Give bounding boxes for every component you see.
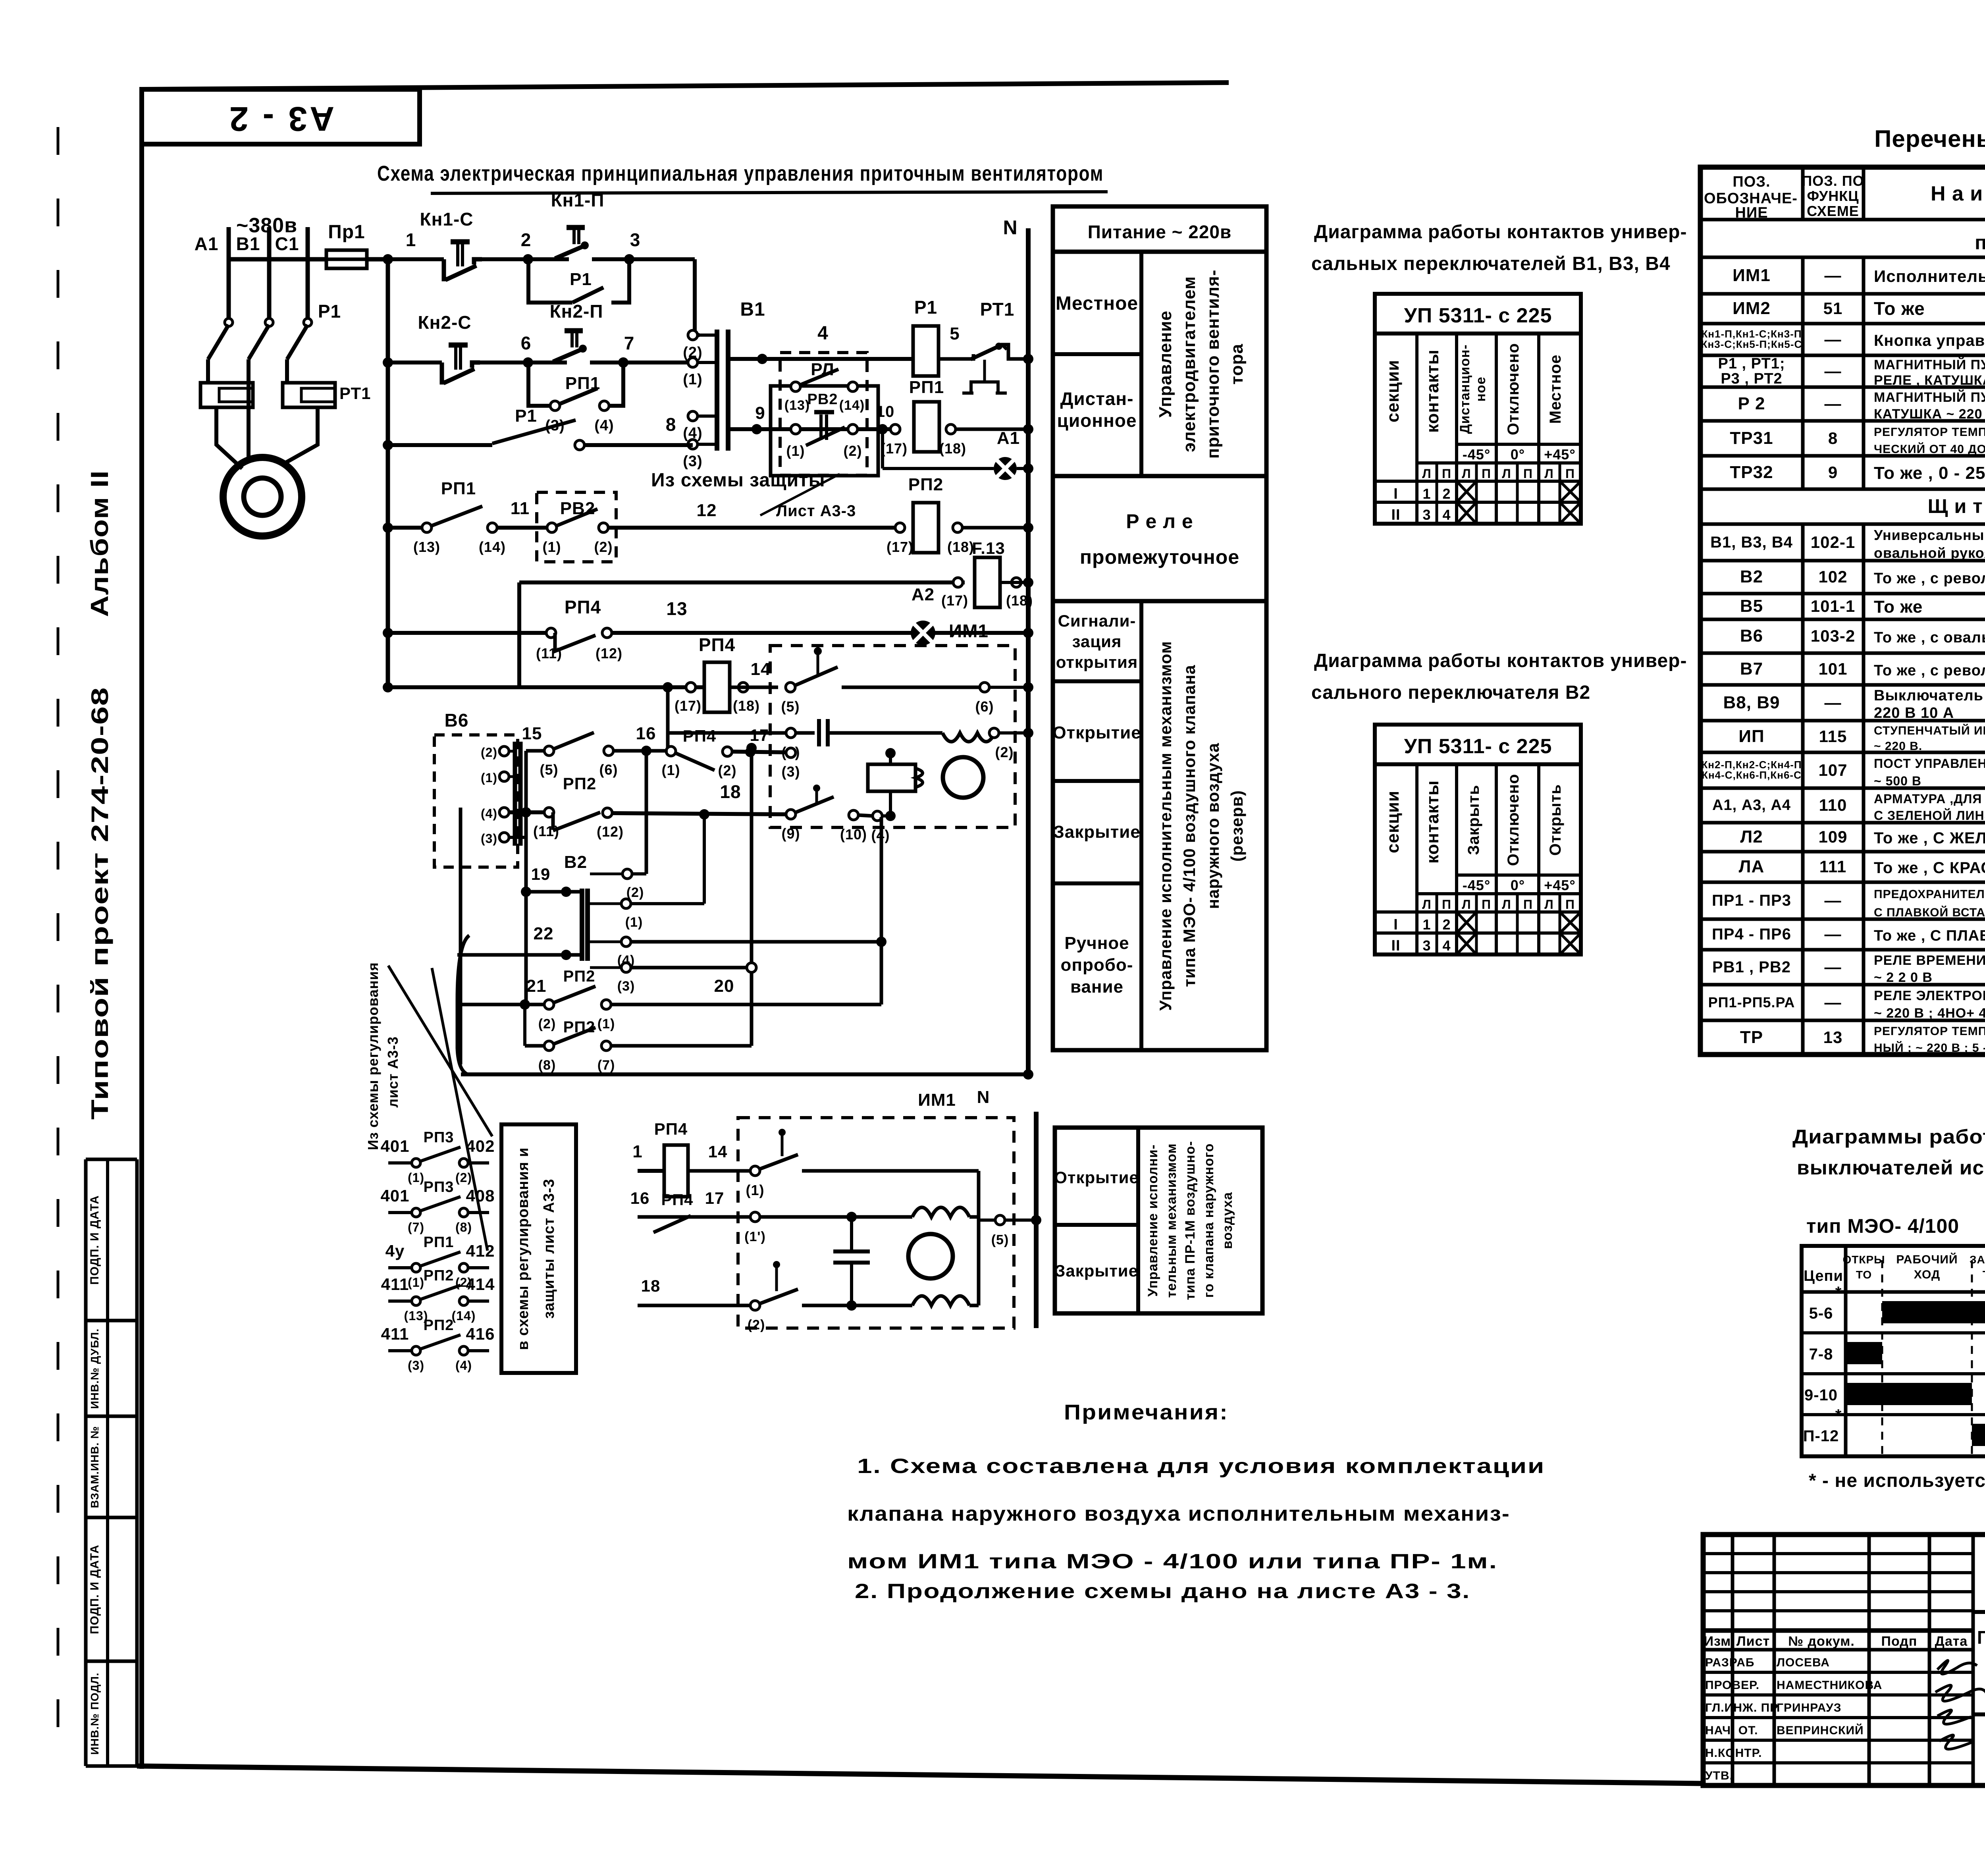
svg-text:13: 13 [1823,1028,1843,1047]
svg-text:мом ИМ1 типа МЭО - 4/100: мом ИМ1 типа МЭО - 4/100 или типа ПР- 1м… [847,1550,1498,1573]
svg-text:Р1: Р1 [318,301,341,322]
svg-text:РАЗРАБ: РАЗРАБ [1705,1656,1754,1669]
node 16 [641,746,651,756]
УП table body [1375,764,1581,954]
svg-text:То же: То же [1874,597,1923,617]
dashed box РВ2 [537,492,616,562]
svg-text:ПРОВЕР.: ПРОВЕР. [1705,1679,1760,1692]
svg-text:зация: зация [1072,632,1122,651]
box в схемы регулирования и защиты лист А3-3 [501,1124,576,1373]
svg-text:ФУНКЦ: ФУНКЦ [1807,188,1859,204]
svg-text:В2: В2 [564,852,587,872]
svg-text:(7): (7) [408,1220,424,1234]
svg-text:ПОСТ УПРАВЛЕНИЯ КНОПОЧНЫЙ ,: ПОСТ УПРАВЛЕНИЯ КНОПОЧНЫЙ , [1874,756,1985,771]
svg-text:2. Продолжение схемы дано: 2. Продолжение схемы дано на листе А3 - … [855,1580,1470,1603]
svg-text:Кн2-П: Кн2-П [550,301,603,322]
svg-text:8: 8 [666,414,676,435]
УП row II [1375,501,1581,504]
svg-text:МАГНИТНЫЙ ПУСКАТЕЛЬ ,: МАГНИТНЫЙ ПУСКАТЕЛЬ , [1874,389,1985,405]
svg-text:402: 402 [466,1137,495,1155]
svg-text:РЕГУЛЯТОР ТЕМПЕРАТУРЫ ТРЕХПОЗИ: РЕГУЛЯТОР ТЕМПЕРАТУРЫ ТРЕХПОЗИЦИОН- [1874,1025,1985,1038]
svg-text:контакты: контакты [1423,780,1442,864]
wire lower rail 3 (18) [638,1304,750,1307]
svg-text:17: 17 [705,1189,725,1207]
svg-text:(5): (5) [991,1232,1009,1247]
svg-text:Н.КОНТР.: Н.КОНТР. [1705,1747,1762,1760]
wire РП2 coil to N [962,526,1028,530]
limit diagram dashed dividers [1881,1260,1883,1456]
svg-text:109: 109 [1818,827,1847,846]
svg-text:(1): (1) [543,539,561,555]
limit diagram table frame [1802,1246,1985,1456]
wire lower rail 2 (16-17) [638,1215,750,1219]
svg-text:Кн2-С: Кн2-С [418,312,472,333]
stamp left grid rows (upper blank) [1703,1552,1973,1555]
svg-text:(6): (6) [599,762,618,778]
svg-text:-45°: -45° [1463,877,1490,893]
wire fuse to bus [367,257,388,262]
wires solenoid-motor [889,753,892,764]
svg-text:*: * [1835,1284,1842,1301]
svg-text:8: 8 [1828,429,1838,447]
svg-text:6: 6 [521,333,532,353]
svg-text:в схемы регулирования и: в схемы регулирования и [515,1147,532,1350]
wire row 15 elbow from В6 [526,749,545,753]
svg-text:ное: ное [1473,376,1488,401]
svg-text:(5): (5) [781,698,800,715]
contact РП1 (bypass) [528,362,550,406]
svg-text:ЛОСЕВА: ЛОСЕВА [1777,1656,1830,1669]
svg-text:~ 500 В: ~ 500 В [1874,774,1921,788]
svg-text:тип МЭО- 4/100: тип МЭО- 4/100 [1806,1215,1959,1237]
contact РП4 arm (lower) [653,1216,691,1232]
svg-text:2: 2 [1442,486,1451,502]
svg-text:51: 51 [1823,299,1843,318]
svg-text:Л: Л [1502,467,1511,481]
svg-text:Р е л е: Р е л е [1126,510,1193,532]
svg-text:ИП: ИП [1738,727,1764,746]
svg-text:РТ1: РТ1 [980,299,1015,320]
svg-text:(2): (2) [538,1016,556,1032]
svg-text:РВ1 , РВ2: РВ1 , РВ2 [1712,958,1791,976]
svg-text:В2: В2 [1740,567,1763,586]
svg-text:(12): (12) [597,823,624,840]
node 10 [877,424,888,434]
svg-text:102-1: 102-1 [1811,533,1855,551]
svg-text:ИНВ.№ ДУБЛ.: ИНВ.№ ДУБЛ. [89,1328,101,1409]
svg-text:(7): (7) [597,1058,615,1073]
coil РП4 (lower) [664,1145,688,1197]
svg-text:(10): (10) [840,826,867,843]
svg-text:Кнопка управления двухштифтова: Кнопка управления двухштифтовая [1874,332,1985,349]
svg-text:-45°: -45° [1463,446,1490,463]
svg-text:ПРЕДОХРАНИТЕЛЬ ТРУБЧАТЫЙ; ~250: ПРЕДОХРАНИТЕЛЬ ТРУБЧАТЫЙ; ~250В, 10 А [1874,887,1985,901]
svg-text:~ 220 В.: ~ 220 В. [1874,740,1922,753]
svg-text:401: 401 [380,1137,409,1155]
svg-text:Л: Л [1502,897,1511,912]
svg-text:клапана наружного воздуха и: клапана наружного воздуха исполнительным… [847,1502,1510,1525]
svg-text:16: 16 [630,1189,650,1207]
wire F13 coil to N [1000,581,1028,584]
wire В2 (1) row stub [631,902,704,905]
svg-text:+45°: +45° [1544,446,1575,463]
wire rail 3 (line 8) [388,443,492,447]
svg-text:102: 102 [1818,567,1847,586]
svg-text:УТВ.: УТВ. [1705,1769,1733,1782]
svg-text:(3): (3) [683,453,702,470]
svg-text:А1, А3, А4: А1, А3, А4 [1712,797,1791,814]
svg-text:контакты: контакты [1423,349,1442,433]
svg-text:ИМ1: ИМ1 [918,1090,956,1110]
limit switch (9)-(10) inside ИМ1 [786,810,796,819]
svg-text:ИНВ.№ ПОДЛ.: ИНВ.№ ПОДЛ. [89,1672,101,1755]
sheet outer dashed trim line (left) [57,127,60,1771]
svg-text:3: 3 [1422,937,1431,954]
svg-text:В6: В6 [445,710,469,731]
svg-text:НАЧ. ОТ.: НАЧ. ОТ. [1705,1724,1758,1737]
svg-text:В8, В9: В8, В9 [1723,693,1780,712]
svg-text:ИМ1: ИМ1 [1733,266,1771,285]
svg-text:Управление исполнительным меха: Управление исполнительным механизмом [1156,641,1175,1011]
wire rail 9 (РП1 coil row) [730,427,901,431]
svg-text:Диаграмма работы контактов уни: Диаграмма работы контактов универ- [1314,650,1687,671]
svg-text:2: 2 [521,229,532,250]
svg-text:(4): (4) [594,417,614,434]
wire rail 10 (line 18) [509,810,552,814]
svg-text:1: 1 [406,229,416,250]
limit diagram row line [1802,1372,1985,1375]
svg-text:—: — [1825,330,1842,349]
stamp title Приточные системы [1973,1712,1985,1716]
svg-text:5-6: 5-6 [1809,1305,1833,1322]
svg-text:ТР32: ТР32 [1730,463,1773,482]
svg-text:7: 7 [624,333,635,353]
svg-text:(8): (8) [538,1058,556,1073]
УП table header band [1375,294,1581,334]
vertical feeder x=1682 [666,687,670,751]
svg-text:Управление исполни-: Управление исполни- [1145,1144,1160,1297]
wire rail 8 (capacitor row) inside ИМ1 [666,689,670,733]
vertical from ИМ1 (10)/(4) down [880,817,883,1005]
svg-text:Кн1-П: Кн1-П [551,190,605,210]
УП row II [1375,931,1581,935]
svg-text:(1): (1) [746,1182,765,1198]
svg-text:Диаграммы работы контактов ко: Диаграммы работы контактов конечных [1792,1126,1985,1148]
wire РП2 vertical x=1160 down [459,808,463,1064]
svg-text:416: 416 [466,1325,495,1343]
dashed box ИМ1 (МЭО-4/100 actuator) [770,646,1015,827]
wire heaters to motor [216,407,242,469]
svg-text:Открытие: Открытие [1054,1168,1139,1187]
svg-text:18: 18 [720,781,741,802]
svg-text:П-12: П-12 [1803,1427,1839,1445]
svg-text:Типовой проект 274-20-68: Типовой проект 274-20-68 [87,687,113,1120]
svg-text:ХОД: ХОД [1914,1268,1941,1281]
limit diagram bar П-12 [1972,1424,1985,1446]
coil РП2 [895,523,905,532]
svg-text:Универсальный переключатель: Универсальный переключатель с [1874,527,1985,543]
svg-text:220 В 10 А: 220 В 10 А [1874,705,1954,721]
svg-text:Л: Л [1544,467,1553,481]
svg-text:Приточные системы П-1, П-2.: Приточные системы П-1, П-2. [1977,1627,1985,1648]
svg-text:РП4: РП4 [661,1191,694,1209]
svg-text:НИЕ: НИЕ [1735,204,1768,221]
svg-text:(1'): (1') [744,1229,766,1244]
svg-text:2: 2 [1442,916,1451,933]
svg-text:13: 13 [666,598,687,619]
svg-text:(2): (2) [748,1317,765,1332]
wire phase top rail [229,257,326,262]
contact РВ2 inside РЛ [791,382,800,391]
svg-text:5: 5 [950,324,960,343]
svg-text:секции: секции [1383,791,1403,853]
svg-text:(14): (14) [452,1309,476,1323]
contact РП2 (8)-(7) [544,1041,554,1051]
svg-text:Р3 , РТ2: Р3 , РТ2 [1721,370,1782,387]
svg-text:защиты лист А3-3: защиты лист А3-3 [541,1179,557,1319]
svg-text:ПОЗ.: ПОЗ. [1733,174,1770,190]
svg-text:ПОЗ. ПО: ПОЗ. ПО [1802,173,1864,189]
svg-text:РП3: РП3 [424,1129,454,1146]
svg-text:Щ и т а в т о м а т и з а ц: Щ и т а в т о м а т и з а ц и и [1928,495,1985,517]
svg-text:В5: В5 [1740,596,1763,616]
leader line from защиты label to РЛ box [760,474,840,515]
svg-text:Отключено: Отключено [1505,774,1522,866]
svg-text:20: 20 [714,976,734,996]
svg-text:наружного воздуха: наружного воздуха [1204,743,1222,909]
schematic title underline [431,192,1108,193]
limit diagram row line [1802,1413,1985,1416]
svg-text:опробо-: опробо- [1061,955,1133,975]
wire rail 5 (F13 coil row) [519,580,965,584]
svg-text:То же , С ЖЕЛТОЙ ЛИНЗОЙ: То же , С ЖЕЛТОЙ ЛИНЗОЙ [1874,829,1985,847]
coil Р1 [913,326,939,376]
svg-text:Закрытие: Закрытие [1053,822,1141,842]
sheet frame left border [139,88,144,1769]
svg-text:II: II [1391,937,1400,954]
svg-text:Отключено: Отключено [1505,343,1522,435]
svg-text:В1, В3, В4: В1, В3, В4 [1710,534,1793,551]
svg-text:(4): (4) [481,806,497,821]
svg-text:II: II [1391,507,1400,523]
svg-text:0°: 0° [1511,446,1525,463]
cell Закрытие [1053,881,1141,885]
sheet code box A3-2 (rotated 180) [142,89,420,144]
svg-text:тора: тора [1227,343,1247,384]
svg-text:овальной рукояткой; ~ 500 В.: овальной рукояткой; ~ 500 В. [1874,545,1985,561]
svg-text:промежуточное: промежуточное [1080,546,1239,568]
svg-text:(17): (17) [881,440,908,457]
svg-text:(1): (1) [408,1170,424,1185]
svg-text:Примечания:: Примечания: [1064,1400,1229,1424]
svg-text:21: 21 [526,976,547,996]
svg-text:—: — [1825,362,1842,380]
svg-text:9: 9 [755,403,765,423]
svg-text:115: 115 [1819,727,1847,746]
svg-text:Дистан-: Дистан- [1060,388,1134,409]
svg-text:П: П [1482,467,1491,481]
svg-text:РВ2: РВ2 [807,391,838,408]
node 17 [745,747,755,757]
svg-text:Диаграмма работы контактов уни: Диаграмма работы контактов универ- [1314,222,1687,243]
svg-text:ТР: ТР [1740,1028,1763,1047]
svg-text:* - не используется: * - не используется [1809,1470,1985,1491]
svg-text:электродвигателем: электродвигателем [1179,276,1199,452]
svg-text:Р1: Р1 [515,406,537,426]
svg-text:Р 2: Р 2 [1738,394,1765,413]
svg-text:411: 411 [381,1275,409,1294]
svg-text:ТО: ТО [1856,1269,1872,1281]
limit diagram bar 9-10 [1846,1383,1972,1405]
limit switch dashed stem [817,646,819,675]
wire rail 15 (РП2 8-7 row) [525,1044,552,1048]
svg-text:РАБОЧИЙ: РАБОЧИЙ [1896,1253,1958,1266]
svg-text:(2): (2) [455,1170,472,1185]
svg-text:4: 4 [1442,937,1451,954]
svg-text:17: 17 [750,726,769,744]
svg-text:(13): (13) [784,398,810,413]
svg-text:(2): (2) [594,539,613,555]
svg-text:воздуха: воздуха [1220,1192,1235,1249]
svg-text:С ЗЕЛЕНОЙ ЛИНЗОЙ.: С ЗЕЛЕНОЙ ЛИНЗОЙ. [1874,808,1985,823]
solid box around РВ2 contact [771,386,878,476]
svg-text:Местное: Местное [1056,293,1138,314]
svg-text:Перечень приборов и аппарат: Перечень приборов и аппаратуры [1874,125,1985,152]
svg-text:—: — [1825,993,1842,1012]
sheet frame bottom border [137,1766,1703,1783]
svg-text:(3): (3) [481,831,497,846]
svg-text:В1: В1 [236,233,260,254]
svg-text:16: 16 [636,724,656,743]
capacitor (lower box) [850,1217,853,1251]
svg-text:—: — [1825,693,1842,712]
svg-text:То же , С ПЛАВКОЙ ВСТАВКОЙ: То же , С ПЛАВКОЙ ВСТАВКОЙ 1 А [1874,926,1985,944]
svg-text:НЫЙ ; ~ 220 В ; 5 - 35°С.: НЫЙ ; ~ 220 В ; 5 - 35°С. [1874,1041,1985,1055]
svg-text:УП 5311- с 225: УП 5311- с 225 [1404,735,1552,758]
cell Сигнализация открытия [1053,679,1141,683]
svg-text:Л: Л [1544,897,1553,912]
svg-text:14: 14 [708,1142,728,1161]
svg-text:Пр1: Пр1 [328,222,365,243]
svg-text:П: П [1565,897,1575,912]
svg-text:Кн1-С: Кн1-С [420,209,474,229]
svg-text:РЕЛЕ ЭЛЕКТРОМАГНИТНОЕ;: РЕЛЕ ЭЛЕКТРОМАГНИТНОЕ; [1874,988,1985,1003]
svg-text:110: 110 [1819,796,1847,814]
svg-text:сального переключателя В2: сального переключателя В2 [1311,682,1590,703]
svg-text:МАГНИТНЫЙ ПУСКАТЕЛЬ С ТЕПЛОВЫМ: МАГНИТНЫЙ ПУСКАТЕЛЬ С ТЕПЛОВЫМ [1874,357,1985,372]
svg-text:Закрытие: Закрытие [1055,1261,1138,1280]
description box Реле промежуточное [1053,476,1266,601]
svg-text:Р1: Р1 [570,270,592,289]
svg-text:(2): (2) [626,885,644,900]
svg-text:(1): (1) [597,1016,615,1032]
svg-text:Ручное: Ручное [1064,933,1129,953]
svg-text:(3): (3) [782,764,800,780]
svg-text:15: 15 [522,724,542,743]
contact РВ2 (1)-(2) [547,523,557,532]
svg-text:РП2: РП2 [424,1317,454,1334]
svg-text:3: 3 [630,229,641,250]
svg-text:РП2: РП2 [424,1267,454,1284]
stamp signatures (cursive squiggles) [1937,1660,1977,1674]
svg-text:РП2: РП2 [563,1018,595,1036]
coil РП4 [686,683,696,692]
wire rail 6 (line 13) [388,631,548,635]
svg-text:ОТКРЫ: ОТКРЫ [1842,1253,1885,1266]
svg-text:107: 107 [1818,761,1847,779]
svg-text:—: — [1825,925,1842,943]
svg-text:~ 2 2 0 В: ~ 2 2 0 В [1874,970,1933,985]
svg-text:сальных переключателей В1, В3: сальных переключателей В1, В3, В4 [1311,253,1671,274]
svg-text:1: 1 [632,1142,642,1161]
node 14 lower [688,1169,750,1173]
svg-text:~ 220 В ; 4НО+ 4НЗ: ~ 220 В ; 4НО+ 4НЗ [1874,1006,1985,1021]
svg-text:Цепи: Цепи [1804,1268,1843,1284]
svg-text:(8): (8) [455,1220,472,1234]
svg-text:Из схемы регулирования: Из схемы регулирования [365,962,381,1150]
svg-text:Питание ~ 220в: Питание ~ 220в [1088,222,1232,242]
svg-text:(2): (2) [844,443,862,459]
limit diagram bar 5-6 [1882,1301,1985,1323]
node 7 [618,357,628,368]
wire rail 1 [388,257,695,261]
svg-text:№ докум.: № докум. [1788,1634,1855,1649]
svg-text:1: 1 [1422,486,1431,502]
svg-text:(1): (1) [625,915,643,930]
svg-text:Р1 , РТ1;: Р1 , РТ1; [1718,355,1785,372]
svg-text:РП2: РП2 [563,774,597,793]
svg-text:Кн3-С;Кн5-П;Кн5-С: Кн3-С;Кн5-П;Кн5-С [1701,338,1802,350]
svg-text:РЕГУЛЯТОР ТЕМПЕРАТУРЫ ДИЛАТОМЕ: РЕГУЛЯТОР ТЕМПЕРАТУРЫ ДИЛАТОМЕТРИ- [1874,426,1985,439]
svg-text:Лист: Лист [1736,1634,1770,1649]
svg-text:го клапана наружного: го клапана наружного [1201,1143,1216,1298]
svg-text:ИМ2: ИМ2 [1733,299,1771,318]
УП Л П row [1417,892,1581,895]
motor circle ПР-1М [908,1234,953,1278]
svg-text:ВЗАМ.ИНВ. №: ВЗАМ.ИНВ. № [89,1426,101,1508]
svg-text:Л2: Л2 [1740,827,1763,846]
svg-text:101: 101 [1818,659,1847,678]
svg-text:РП1-РП5.РА: РП1-РП5.РА [1708,994,1795,1010]
wire rail1 elbow down to В1 [695,259,700,335]
svg-text:РП4: РП4 [654,1120,688,1138]
svg-text:4: 4 [1442,507,1451,523]
right riser joining inductors [969,1304,979,1307]
svg-text:18: 18 [641,1276,661,1295]
svg-text:(18): (18) [939,440,966,457]
wire В2 (3) row to riser 1893 [631,966,747,970]
svg-text:401: 401 [380,1186,409,1205]
svg-text:9-10: 9-10 [1804,1386,1838,1404]
svg-text:А1: А1 [997,428,1020,448]
svg-text:В7: В7 [1740,659,1763,679]
limit switch contact (1) lower [750,1166,760,1176]
svg-text:4у: 4у [385,1242,405,1260]
svg-text:—: — [1825,891,1842,910]
svg-text:секции: секции [1383,360,1403,422]
dashed box В6 (universal switch) [434,735,518,867]
svg-text:Исполнительный механизм: Исполнительный механизм [1874,267,1985,285]
svg-text:А2: А2 [912,585,935,604]
left bracket curve (wires from sheet А3-3) [457,935,469,1074]
svg-text:То же , с револьверной рукоятк: То же , с револьверной рукояткой [1874,662,1985,679]
svg-text:РЕЛЕ ВРЕМЕНИ ПНЕВМАТИЧЕСКОЕ;: РЕЛЕ ВРЕМЕНИ ПНЕВМАТИЧЕСКОЕ; [1874,953,1985,968]
svg-text:ГРИНРАУЗ: ГРИНРАУЗ [1777,1701,1842,1714]
svg-text:С1: С1 [275,233,299,254]
В2 pins right [622,869,632,879]
svg-text:(2): (2) [718,762,737,779]
motor М [223,457,302,536]
